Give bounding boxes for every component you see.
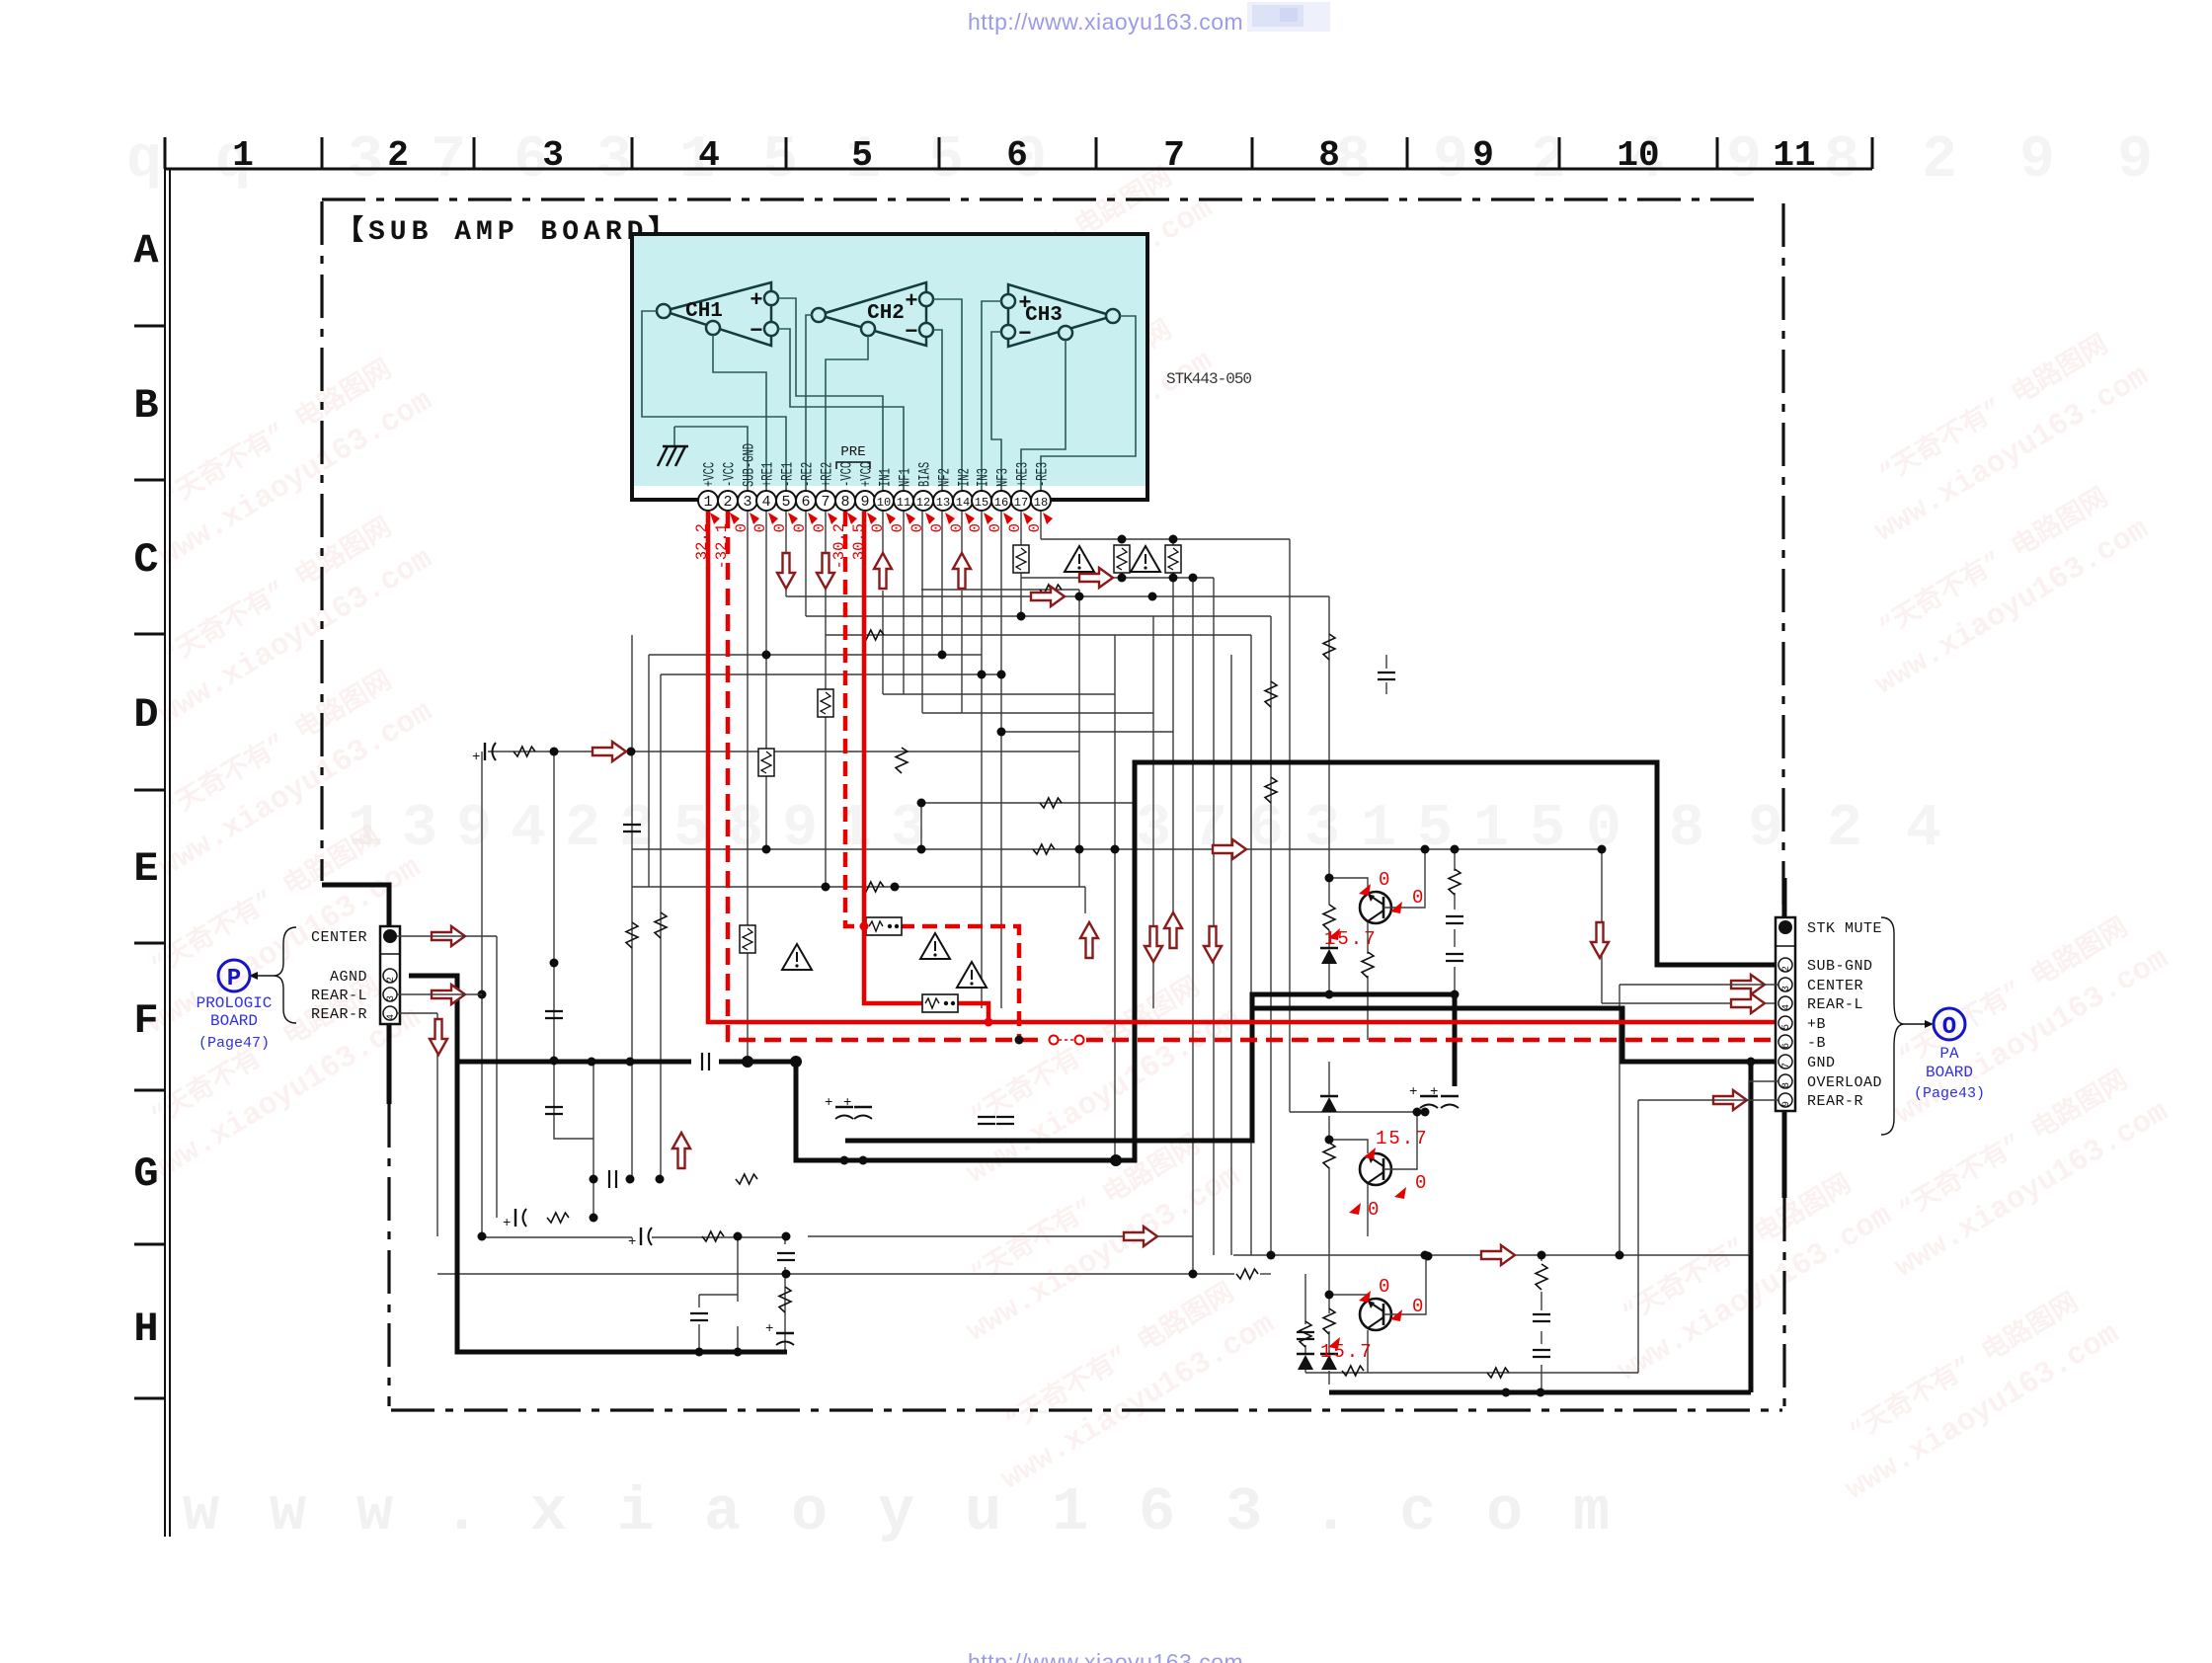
svg-text:9: 9: [1748, 796, 1783, 863]
svg-text:0: 0: [1368, 1199, 1379, 1221]
warning triangle at 984,988: [957, 962, 987, 988]
svg-text:O: O: [1942, 1014, 1956, 1041]
boxed resistor at 1136,566: [1114, 545, 1130, 573]
junction at 638,1194: [626, 1175, 635, 1184]
svg-text:9: 9: [1781, 1101, 1792, 1107]
svg-text:BOARD: BOARD: [210, 1012, 258, 1030]
svg-text:AGND: AGND: [330, 969, 367, 986]
junction at 747,1369: [734, 1348, 743, 1357]
junction at 488,1252: [478, 1232, 487, 1241]
signal flow arrow right at 437,948: [432, 926, 465, 946]
svg-text:4: 4: [1906, 796, 1941, 863]
svg-text:−: −: [905, 320, 917, 345]
svg-text:5: 5: [673, 796, 709, 863]
svg-text:+B: +B: [1807, 1016, 1826, 1033]
electrolytic capacitor at 1447,1113: [1420, 1095, 1438, 1097]
junction at 1446,1272: [1424, 1252, 1433, 1261]
svg-text:+: +: [472, 750, 480, 765]
junction at 836,898: [822, 883, 830, 892]
watermark diagonal pink: [128, 343, 438, 574]
svg-text:-VCC: -VCC: [722, 462, 740, 487]
svg-text:15.7: 15.7: [1376, 1128, 1429, 1149]
signal flow arrow up at 1103,970: [1080, 922, 1098, 958]
wire mesh: pin drop verticals: [748, 512, 1041, 1062]
red transistor labels: [1320, 869, 1429, 1363]
capacitor at 1561,1370: [1533, 1350, 1550, 1357]
transistor Q3: [1360, 1299, 1391, 1330]
capacitor at 1561,1334: [1533, 1314, 1550, 1321]
wire bus y=703: [883, 693, 1115, 695]
diode at 1322,1379: [1297, 1353, 1314, 1356]
IC internal wires: [642, 298, 1136, 491]
transistor Q1: [1360, 892, 1391, 923]
boxed resistor at 757,951: [740, 925, 755, 953]
signal flow arrow down at 1228,938: [1204, 926, 1222, 962]
svg-text:A: A: [133, 227, 159, 275]
junction at 1560,1410: [1537, 1388, 1545, 1397]
svg-text:-RE2: -RE2: [800, 462, 818, 487]
junction at 1093,860: [1075, 845, 1084, 854]
wire bus y=597: [921, 589, 1079, 591]
svg-text:3: 3: [348, 127, 383, 195]
pin labels: [702, 443, 1053, 487]
op-amp CH1: [657, 282, 778, 346]
svg-text:15: 15: [975, 496, 988, 510]
svg-text:9: 9: [2019, 127, 2055, 195]
wire from IC pin x=757: [747, 512, 749, 1062]
svg-text:+: +: [1018, 291, 1031, 316]
svg-text:13: 13: [936, 496, 950, 510]
svg-text:GND: GND: [1807, 1055, 1836, 1071]
svg-text:1: 1: [1052, 1477, 1088, 1547]
svg-text:B: B: [133, 382, 158, 430]
signal flow arrow right at 1753,997: [1731, 975, 1765, 994]
svg-text:6: 6: [1248, 796, 1284, 863]
svg-text:8: 8: [1318, 135, 1340, 176]
signal flow arrow right at 1500,1271: [1481, 1245, 1515, 1265]
watermark big bottom text: [183, 1477, 1610, 1547]
svg-text:10: 10: [1617, 135, 1659, 176]
junction at 747,1252: [734, 1232, 743, 1241]
junction at 933,860: [917, 845, 926, 854]
signal flow arrow right at 1044,604: [1031, 587, 1065, 606]
svg-text:4: 4: [511, 796, 546, 863]
red probe marks: [710, 513, 1053, 524]
wire from IC pin x=994: [981, 512, 983, 1008]
electrolytic capacitor at 525,1233: [514, 1209, 516, 1227]
svg-text:w: w: [356, 1477, 393, 1547]
svg-text:5: 5: [851, 135, 873, 176]
junction at 1346,1311: [1325, 1291, 1334, 1300]
svg-text:.: .: [443, 1477, 480, 1547]
svg-text:11: 11: [1773, 135, 1815, 176]
capacitor at 714,1075: [702, 1053, 709, 1070]
svg-text:C: C: [133, 536, 158, 584]
svg-text:8: 8: [1335, 127, 1371, 195]
capacitor at 1322,1352: [1297, 1332, 1314, 1339]
junction at 1561,1271: [1538, 1251, 1546, 1260]
junction at 668,1194: [656, 1175, 665, 1184]
wire bus y=663: [649, 654, 982, 656]
svg-text:8: 8: [1824, 127, 1859, 195]
junction at 933,813: [917, 799, 926, 808]
junction at 1034,624: [1017, 612, 1026, 621]
svg-text:1: 1: [1473, 796, 1509, 863]
svg-text:F: F: [133, 997, 158, 1045]
svg-text:9: 9: [1433, 127, 1468, 195]
svg-text:2: 2: [387, 135, 409, 176]
svg-text:8: 8: [1781, 1082, 1792, 1088]
signal flow arrow right at 1753,1016: [1731, 993, 1765, 1013]
junction at 599,1075: [588, 1058, 596, 1067]
svg-text:7: 7: [821, 494, 829, 511]
capacitor at 1018,1134: [996, 1117, 1014, 1124]
svg-text:+RE1: +RE1: [760, 462, 778, 487]
svg-text:(Page47): (Page47): [198, 1035, 270, 1052]
svg-text:NF2: NF2: [937, 468, 955, 487]
wire from IC pin x=776: [765, 512, 767, 655]
svg-text:11: 11: [897, 496, 910, 510]
wire from IC pin x=934: [921, 512, 923, 713]
boxed resistor at 836,712: [818, 689, 833, 717]
svg-text:x: x: [530, 1477, 567, 1547]
junction at 1167,604: [1148, 593, 1157, 601]
svg-text:15.7: 15.7: [1324, 928, 1378, 950]
svg-text:http://www.xiaoyu163.com: http://www.xiaoyu163.com: [968, 9, 1243, 35]
wire from IC pin x=974: [961, 512, 963, 553]
IC STK443-050 block: [632, 234, 1147, 500]
electrolytic capacitor at 874,1124: [854, 1106, 872, 1108]
svg-text:4: 4: [386, 1014, 397, 1020]
junction at 1188,585: [1169, 574, 1178, 583]
svg-text:【SUB AMP BOARD】: 【SUB AMP BOARD】: [336, 214, 680, 248]
wire bus y=722: [922, 712, 1153, 714]
capacitor at 620,1194: [609, 1170, 616, 1188]
svg-text:0: 0: [908, 523, 926, 532]
signal flow arrow right at 1093,585: [1079, 568, 1113, 588]
svg-text:8: 8: [1669, 796, 1704, 863]
svg-text:CH1: CH1: [685, 300, 723, 323]
wire bus y=683: [661, 673, 1001, 675]
svg-text:8: 8: [728, 796, 763, 863]
capacitor at 1473,969: [1446, 954, 1463, 961]
wire bus y=813: [921, 802, 1135, 804]
svg-text:9: 9: [1472, 135, 1494, 176]
signal flow arrow up at 690,1183: [672, 1133, 690, 1168]
svg-text:0: 0: [869, 523, 887, 532]
svg-text:http://www.xiaoyu163.com: http://www.xiaoyu163.com: [968, 1649, 1243, 1663]
svg-text:18: 18: [1034, 496, 1048, 510]
junction at 954,663: [938, 651, 947, 660]
wire from IC pin x=1054: [1040, 512, 1042, 539]
capacitor at 640,838: [623, 825, 641, 831]
svg-text:y: y: [878, 1477, 914, 1547]
junction at 1129,860: [1111, 845, 1120, 854]
svg-text:IN3: IN3: [976, 468, 993, 487]
junction at 1136,546: [1118, 535, 1127, 544]
junction at 757,1075: [744, 1058, 752, 1067]
junction at 796,1252: [782, 1232, 791, 1241]
diode at 1346,1118: [1320, 1095, 1338, 1098]
wire from IC pin x=816: [805, 512, 807, 616]
ground: [658, 446, 688, 466]
red +VCC(PRE) pin9 branch: [864, 512, 923, 1003]
capacitor at 561,1124: [545, 1107, 563, 1114]
junction at 1473,1007: [1451, 990, 1460, 999]
svg-text:+: +: [843, 1095, 851, 1111]
junction at 1287,1271: [1267, 1251, 1276, 1260]
signal flow arrow up at 974,596: [953, 553, 971, 589]
junction at 776,860: [762, 845, 771, 854]
top ruler: [165, 137, 1872, 169]
svg-text:0: 0: [1415, 1172, 1426, 1194]
junction at 1208,585: [1189, 574, 1198, 583]
svg-text:-VCC: -VCC: [839, 462, 857, 487]
svg-text:2: 2: [386, 977, 397, 983]
wire bus y=741: [1001, 731, 1173, 733]
svg-text:P: P: [227, 966, 241, 992]
wire from IC pin x=1014: [1000, 512, 1002, 1008]
diode at 1346,968: [1320, 947, 1338, 950]
svg-text:BIAS: BIAS: [917, 462, 935, 487]
junction at 1622,860: [1598, 845, 1607, 854]
svg-text:3: 3: [1225, 1477, 1262, 1547]
signal flow arrow down at 796,560: [777, 553, 795, 589]
junction at 708,1369: [695, 1348, 704, 1357]
boxed resistor at 776,772: [758, 749, 774, 776]
IC pins 1-18: [698, 491, 1051, 511]
svg-text:CENTER: CENTER: [1807, 978, 1863, 994]
red +VCC pin1 to +B: [708, 512, 1777, 1022]
svg-text:0: 0: [1412, 1296, 1423, 1317]
svg-text:6: 6: [1781, 1043, 1792, 1049]
junction at 1443,1271: [1421, 1251, 1430, 1260]
electrolytic capacitor at 855,1124: [835, 1106, 853, 1108]
svg-text:+: +: [825, 1095, 832, 1111]
junction at 906,898: [891, 883, 900, 892]
junction at 1130,1175: [1112, 1156, 1121, 1165]
junction at 561,975: [550, 959, 559, 968]
svg-text:1: 1: [703, 494, 712, 511]
junction at 1435,1126: [1413, 1108, 1422, 1117]
svg-text:H: H: [133, 1306, 158, 1353]
junction at 1346,1154: [1325, 1136, 1334, 1145]
junction at 855,1175: [840, 1156, 849, 1165]
boxed resistor at 1034,566: [1013, 545, 1029, 573]
svg-text:G: G: [133, 1150, 158, 1198]
svg-text:9: 9: [1726, 127, 1762, 195]
svg-text:5: 5: [1417, 796, 1453, 863]
svg-text:PRE: PRE: [840, 444, 865, 460]
signal flow arrow right at 1138,1252: [1124, 1227, 1157, 1246]
svg-text:0: 0: [1412, 887, 1423, 909]
svg-text:10: 10: [877, 496, 891, 510]
junction at 1208,1290: [1189, 1270, 1198, 1279]
svg-text:STK443-050: STK443-050: [1166, 370, 1251, 388]
svg-text:1: 1: [232, 135, 254, 176]
svg-text:2: 2: [1531, 127, 1566, 195]
wire bus y=860: [632, 848, 1602, 850]
transistor Q2: [1360, 1153, 1391, 1185]
svg-text:+: +: [628, 1234, 636, 1250]
svg-text:5: 5: [928, 127, 964, 195]
svg-text:1: 1: [1361, 796, 1396, 863]
svg-text:3: 3: [1781, 986, 1792, 991]
junction at 1473,860: [1451, 845, 1460, 854]
junction at 1443,860: [1421, 845, 1430, 854]
svg-text:-RE3: -RE3: [1035, 462, 1053, 487]
capacitor at 1473,931: [1446, 916, 1463, 923]
svg-text:REAR-R: REAR-R: [1807, 1093, 1863, 1110]
svg-text:PA: PA: [1939, 1045, 1959, 1063]
wire bus y=898: [632, 886, 1085, 888]
svg-text:3: 3: [596, 127, 632, 195]
svg-text:4: 4: [1781, 1004, 1792, 1010]
svg-text:2: 2: [1922, 127, 1957, 195]
electrolytic capacitor at 652,1252: [640, 1227, 642, 1245]
svg-text:5: 5: [762, 127, 798, 195]
capacitor at 561,1027: [545, 1011, 563, 1018]
junction at 1443,1126: [1421, 1108, 1430, 1117]
svg-text:NF3: NF3: [995, 468, 1013, 487]
svg-text:2: 2: [1781, 966, 1792, 972]
junction at 561,1074: [550, 1057, 559, 1066]
svg-text:3: 3: [386, 995, 397, 1001]
junction at 638,1075: [626, 1058, 635, 1067]
svg-text:7: 7: [1163, 135, 1185, 176]
wire from IC pin x=796: [785, 512, 787, 596]
junction at 639,761: [627, 748, 636, 756]
svg-text:7: 7: [1781, 1063, 1792, 1069]
junction at 874,1175: [859, 1156, 868, 1165]
red -VCC(PRE) pin8 dashed branch: [845, 512, 867, 926]
warning triangle at 1093,567: [1065, 546, 1094, 572]
svg-text:REAR-R: REAR-R: [311, 1006, 367, 1023]
svg-text:0: 0: [948, 523, 966, 532]
svg-text:CH2: CH2: [867, 302, 905, 325]
svg-text:D: D: [133, 691, 158, 739]
svg-text:+: +: [1409, 1084, 1417, 1100]
svg-text:0: 0: [928, 523, 946, 532]
svg-text:3: 3: [743, 494, 751, 511]
svg-text:OVERLOAD: OVERLOAD: [1807, 1074, 1882, 1091]
red -VCC pin2 to -B (dashed): [728, 512, 1047, 1040]
svg-text:IN1: IN1: [878, 468, 896, 487]
electrolytic capacitor at 494,761: [484, 743, 486, 760]
svg-text:6: 6: [801, 494, 810, 511]
svg-text:c: c: [1399, 1477, 1436, 1547]
junction at 1346,889: [1325, 874, 1334, 883]
svg-text:9: 9: [456, 796, 492, 863]
svg-text:+: +: [750, 288, 762, 313]
junction at 1640,1271: [1616, 1251, 1624, 1260]
svg-text:-RE1: -RE1: [780, 462, 798, 487]
svg-text:0: 0: [1379, 869, 1389, 891]
svg-text:−: −: [1018, 322, 1031, 347]
svg-text:5: 5: [781, 494, 790, 511]
svg-text:6: 6: [1006, 135, 1028, 176]
junction at 601,1194: [590, 1175, 598, 1184]
warning triangle at 947,959: [920, 933, 950, 959]
capacitor at 796,1272: [777, 1253, 795, 1260]
svg-text:q: q: [126, 127, 162, 195]
svg-text:BOARD: BOARD: [1926, 1064, 1973, 1081]
capacitor at 1404,684: [1378, 673, 1395, 679]
svg-text:5: 5: [1530, 796, 1565, 863]
signal flow arrow up at 1188,960: [1164, 912, 1182, 948]
junction at 1014,683: [997, 671, 1006, 679]
svg-text:SUB-GND: SUB-GND: [742, 443, 759, 487]
wire bus y=643: [826, 634, 1251, 636]
boxed resistor at 1188,566: [1165, 545, 1181, 573]
svg-text:9: 9: [2117, 127, 2153, 195]
junction at 994,683: [978, 671, 987, 679]
svg-text:REAR-L: REAR-L: [1807, 996, 1863, 1013]
svg-text:2: 2: [565, 796, 600, 863]
svg-text:+: +: [905, 289, 917, 314]
signal flow arrow right at 437,1007: [432, 985, 465, 1004]
svg-text:14: 14: [956, 496, 970, 510]
thick gnd net: [322, 762, 1784, 1392]
svg-text:w: w: [183, 1477, 219, 1547]
junction at 488,1007: [478, 990, 487, 999]
svg-text:IN2: IN2: [957, 468, 975, 487]
signal flow arrow up at 894,596: [874, 553, 892, 589]
svg-text:6: 6: [1139, 1477, 1175, 1547]
svg-text:m: m: [1573, 1477, 1610, 1547]
junction at 1136,585: [1118, 574, 1127, 583]
signal flow arrow right at 1228,860: [1213, 839, 1246, 859]
svg-text:15.7: 15.7: [1320, 1341, 1374, 1363]
svg-text:+RE3: +RE3: [1015, 462, 1033, 487]
left connector CN (PROLOGIC): [380, 926, 400, 1024]
svg-text:.: .: [1312, 1477, 1349, 1547]
junction at 776,663: [762, 651, 771, 660]
signal flow arrow down at 836,560: [817, 553, 834, 589]
capacitor at 999,1134: [978, 1117, 995, 1124]
junction at 1188,546: [1169, 535, 1178, 544]
watermark faint digits: [126, 127, 2153, 863]
svg-text:2: 2: [1827, 796, 1862, 863]
junction at 1525,1410: [1502, 1388, 1511, 1397]
junction at 796,1290: [782, 1270, 791, 1279]
svg-text:17: 17: [1014, 496, 1028, 510]
svg-text:o: o: [1486, 1477, 1523, 1547]
svg-text:i: i: [617, 1477, 654, 1547]
svg-text:a: a: [704, 1477, 741, 1547]
svg-text:16: 16: [994, 496, 1008, 510]
svg-text:0: 0: [1379, 1276, 1389, 1298]
svg-text:9: 9: [782, 796, 818, 863]
wire from IC pin x=954: [941, 512, 943, 655]
junction at 806,1075: [792, 1058, 801, 1067]
wire bus y=604: [786, 595, 1329, 597]
svg-text:+: +: [503, 1216, 511, 1231]
signal flow arrow down at 1168,938: [1145, 926, 1162, 962]
junction at 1014,741: [997, 728, 1006, 737]
svg-text:-B: -B: [1807, 1035, 1826, 1052]
wire from IC pin x=915: [903, 512, 905, 694]
op-amp CH3: [1001, 284, 1120, 347]
svg-text:4: 4: [698, 135, 720, 176]
junction at 1346,1007: [1325, 990, 1334, 999]
junction at 561,761: [550, 748, 559, 756]
svg-text:+: +: [1430, 1084, 1438, 1100]
right connector CN (PA): [1776, 917, 1795, 1111]
left ruler: [134, 169, 170, 1537]
svg-text:+: +: [765, 1321, 773, 1337]
svg-text:2: 2: [723, 494, 732, 511]
